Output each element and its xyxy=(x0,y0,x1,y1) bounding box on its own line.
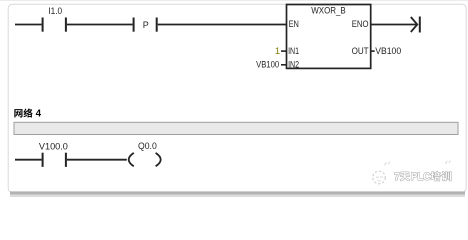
network label 网络 4 xyxy=(14,108,41,119)
contact P (positive transition) xyxy=(133,18,158,32)
svg-text:4: 4 xyxy=(36,109,42,120)
svg-text:WXOR_B: WXOR_B xyxy=(311,5,346,15)
network separator bar xyxy=(14,122,458,134)
svg-text:I1.0: I1.0 xyxy=(48,6,62,17)
svg-text:EN: EN xyxy=(289,19,299,30)
svg-text:PLC: PLC xyxy=(411,171,431,183)
svg-text:OUT: OUT xyxy=(352,46,369,57)
wire xyxy=(15,159,42,161)
wire xyxy=(67,159,127,161)
svg-text:VB100: VB100 xyxy=(256,59,279,70)
contact I1.0 xyxy=(42,6,67,32)
watermark speck marks xyxy=(385,162,390,166)
pin IN2 xyxy=(281,59,299,70)
watermark logo circle xyxy=(373,171,386,184)
svg-text:1: 1 xyxy=(275,46,280,57)
pin IN1 xyxy=(281,46,299,57)
wire xyxy=(15,24,42,26)
contact V100.0 xyxy=(39,142,68,167)
wire ENO output xyxy=(371,24,418,26)
svg-text:IN1: IN1 xyxy=(288,46,299,57)
svg-text:IN2: IN2 xyxy=(288,59,299,70)
coil Q0.0 xyxy=(129,141,161,166)
svg-text:V100.0: V100.0 xyxy=(39,142,68,153)
svg-text:VB100: VB100 xyxy=(375,46,401,57)
svg-text:7: 7 xyxy=(394,171,400,183)
wire xyxy=(67,24,133,26)
svg-text:P: P xyxy=(143,20,149,30)
function block WXOR_B xyxy=(287,5,371,69)
watermark text 7天PLC培训 xyxy=(394,171,451,183)
open rung arrow terminator xyxy=(411,17,421,33)
pin OUT xyxy=(352,46,375,57)
svg-text:ENO: ENO xyxy=(352,19,369,30)
svg-text:Q0.0: Q0.0 xyxy=(138,141,157,152)
wire xyxy=(158,24,287,26)
